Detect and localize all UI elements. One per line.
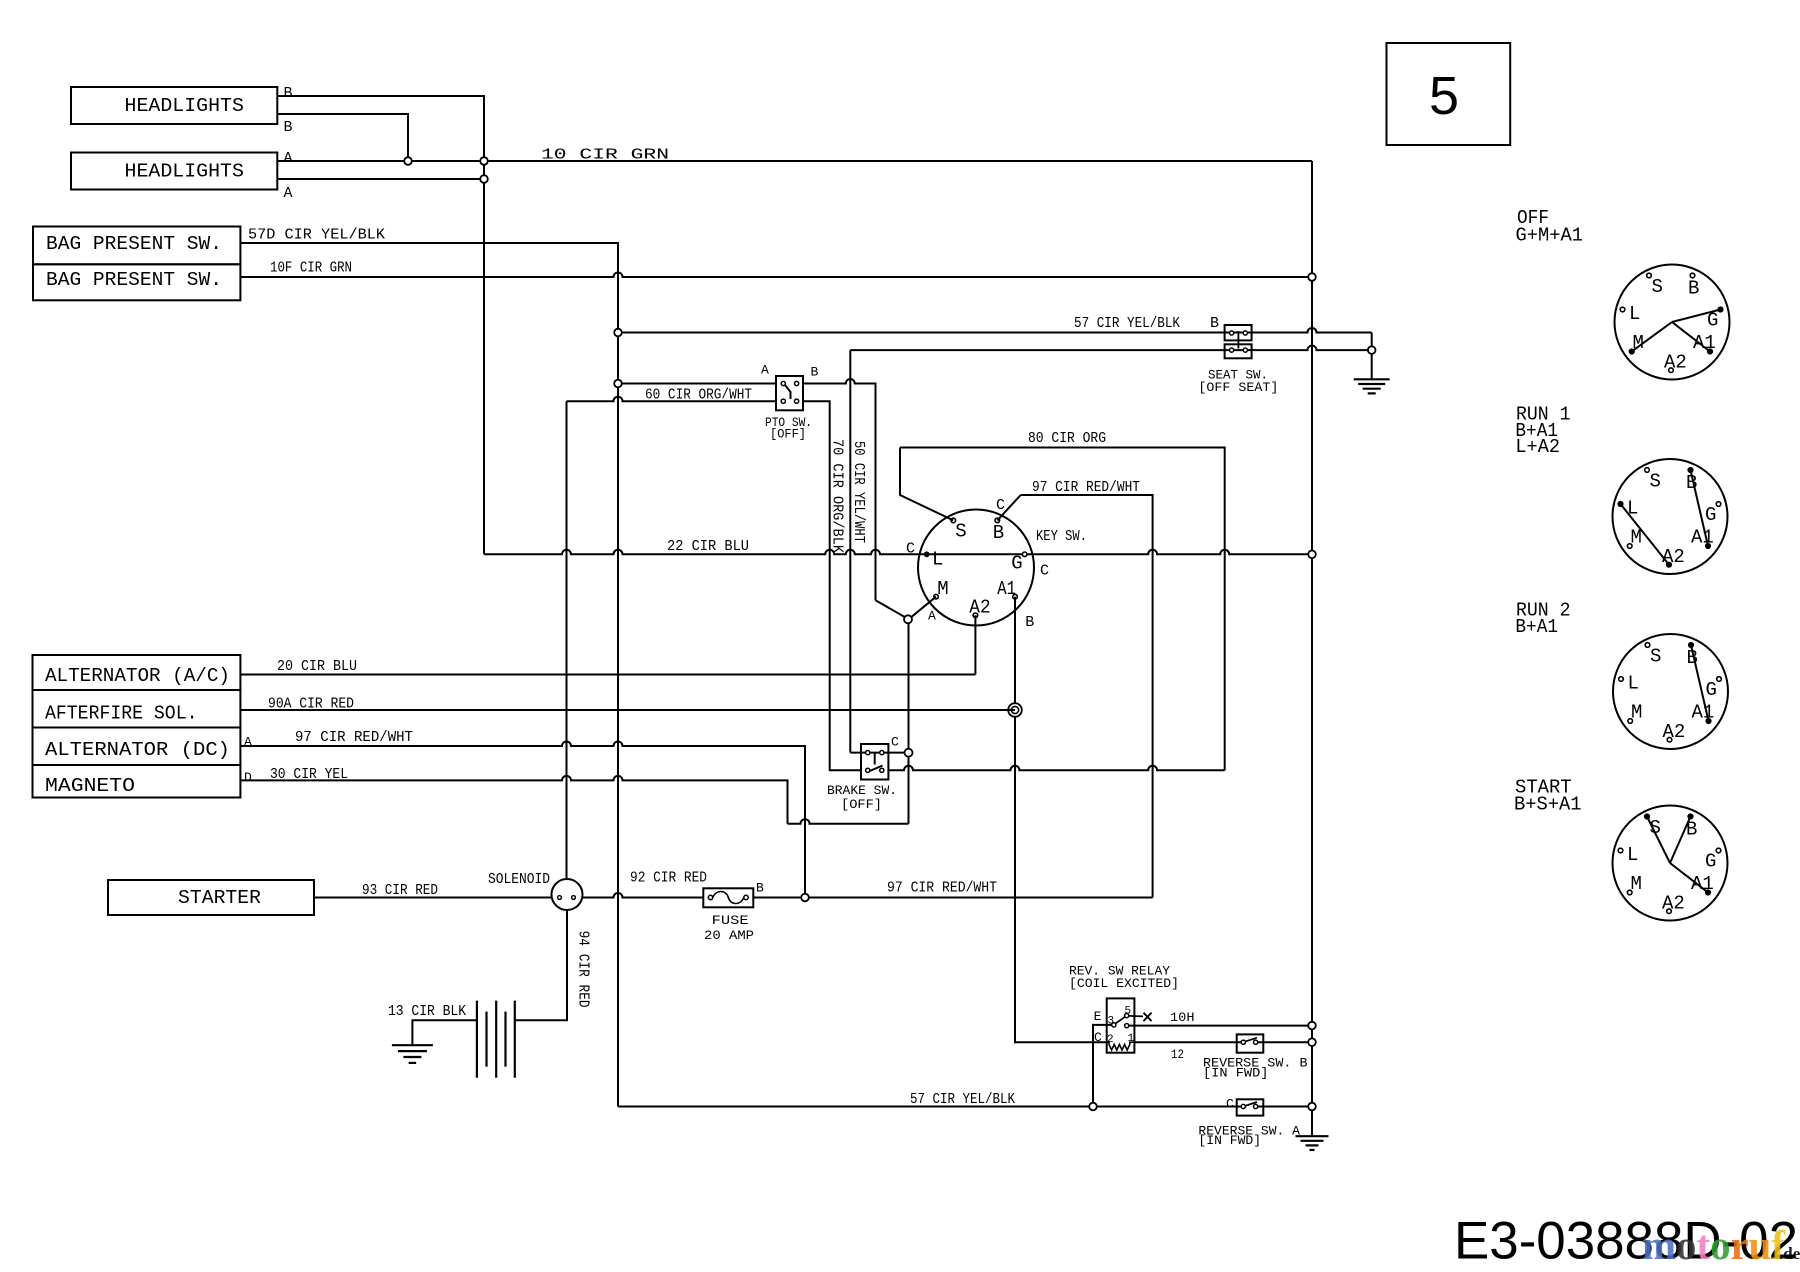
- svg-text:[IN FWD]: [IN FWD]: [1198, 1134, 1261, 1148]
- svg-text:12: 12: [1171, 1047, 1184, 1062]
- svg-text:93 CIR RED: 93 CIR RED: [362, 882, 438, 899]
- label 57 CIR YEL/BLK (bottom): [910, 1091, 1015, 1108]
- node junction (484,179): [480, 175, 488, 183]
- wire solenoid bottom 94 CIR RED: [515, 910, 567, 1020]
- wire REVERSE SW. B to right vertical: [1258, 1041, 1312, 1043]
- label PTO SW.: [765, 415, 812, 430]
- pin label B (seat sw): [1210, 315, 1219, 332]
- label A (M connector): [928, 609, 936, 624]
- svg-text:A2: A2: [1664, 352, 1687, 374]
- label [OFF] (brake): [841, 797, 882, 812]
- svg-text:B: B: [284, 85, 293, 102]
- svg-text:A: A: [244, 735, 252, 750]
- switch REVERSE SW. B box: [1237, 1034, 1264, 1052]
- svg-text:92 CIR RED: 92 CIR RED: [630, 870, 707, 887]
- wire 30 CIR YEL (magneto to brake bus): [240, 776, 908, 824]
- wire M pin diagonal to connector: [911, 597, 936, 618]
- pin label B (fuse): [756, 881, 764, 896]
- wire A2 drop and 20 CIR BLU run: [240, 615, 975, 674]
- wire PTO B to M-connector vertical: [803, 379, 876, 600]
- relay REV. SW RELAY box: [1107, 998, 1135, 1052]
- svg-text:L+A2: L+A2: [1515, 436, 1560, 458]
- KEY SW label L: [932, 549, 943, 571]
- label [IN FWD] (A): [1198, 1134, 1261, 1148]
- label B+S+A1: [1514, 794, 1582, 816]
- pin label A (PTO): [761, 363, 769, 378]
- svg-text:KEY SW.: KEY SW.: [1036, 528, 1087, 545]
- wire PTO-B diagonal to connector: [876, 600, 905, 617]
- svg-text:SOLENOID: SOLENOID: [488, 871, 550, 888]
- node junction (484,161): [480, 157, 488, 165]
- wire vertical x484 down to 22 CIR BLU: [483, 165, 485, 554]
- svg-text:1: 1: [1128, 1033, 1135, 1045]
- svg-text:94 CIR RED: 94 CIR RED: [575, 931, 592, 1008]
- label START: [1515, 777, 1572, 799]
- wire headlights-lower A2: [277, 178, 484, 180]
- relay pin label 5: [1125, 1005, 1132, 1017]
- pin label B (PTO): [811, 365, 819, 380]
- label 57 CIR YEL/BLK (top): [1074, 315, 1180, 332]
- label 90A CIR RED: [268, 696, 354, 713]
- label 22 CIR BLU: [667, 538, 749, 555]
- wire headlights-upper B to node x484: [277, 96, 484, 157]
- svg-text:FUSE: FUSE: [712, 913, 749, 928]
- box BAG PRESENT SW. (upper): [33, 227, 240, 265]
- wire relay pin1 to REVERSE SW. B: [1134, 1041, 1241, 1043]
- KEY SW label B: [993, 522, 1004, 544]
- wire battery to ground: [412, 1020, 477, 1045]
- wire REVERSE SW. A to right vertical: [1258, 1106, 1312, 1108]
- pin label D (magneto): [244, 770, 252, 785]
- pin label A (headlights lower, pin 1): [284, 150, 293, 167]
- label C (above B): [996, 497, 1005, 514]
- svg-text:10 CIR GRN: 10 CIR GRN: [541, 147, 669, 164]
- svg-text:G: G: [1706, 679, 1717, 701]
- label 12: [1171, 1047, 1184, 1062]
- label 97 CIR RED/WHT (key): [1032, 479, 1140, 496]
- box sheet number 5: [1387, 43, 1511, 145]
- svg-text:G: G: [1705, 851, 1716, 873]
- wire 50 CIR YEL/WHT label vertical: [850, 441, 867, 543]
- wire PTO bottom-right to 70 CIR ORG/BLK down to brake: [803, 401, 861, 770]
- KEY SW label A1: [997, 578, 1016, 600]
- KEY SW pin M: [934, 594, 939, 599]
- svg-text:BAG PRESENT SW.: BAG PRESENT SW.: [46, 269, 222, 291]
- node junction (1093,1106.5): [1089, 1103, 1097, 1111]
- node junction (1312,1106.5): [1308, 1103, 1316, 1111]
- SEAT SW terminals: [1230, 331, 1248, 352]
- relay pin label C: [1094, 1030, 1102, 1045]
- op key position circle START: [1613, 806, 1728, 921]
- label OFF: [1517, 207, 1549, 229]
- svg-text:[OFF SEAT]: [OFF SEAT]: [1198, 380, 1278, 395]
- REVERSE SW B blade: [1245, 1038, 1257, 1042]
- svg-text:C: C: [906, 541, 915, 558]
- wire seat lower right to ground node: [1252, 346, 1368, 351]
- battery 13 CIR BLK: [477, 1001, 515, 1078]
- node junction (1312,1042.2): [1308, 1038, 1316, 1046]
- svg-text:B: B: [284, 119, 293, 136]
- wire headlights-upper B2 to node x408: [277, 114, 408, 157]
- box ALTERNATOR (DC): [33, 728, 241, 766]
- svg-text:D: D: [244, 770, 252, 785]
- relay pin label 2: [1107, 1034, 1114, 1046]
- svg-text:M: M: [1631, 873, 1642, 895]
- svg-text:S: S: [955, 521, 966, 543]
- svg-text:S: S: [1652, 276, 1663, 298]
- svg-text:E: E: [1094, 1009, 1102, 1024]
- label 13 CIR BLK: [388, 1003, 466, 1020]
- svg-text:L: L: [1627, 498, 1638, 520]
- label 93 CIR RED: [362, 882, 438, 899]
- node connector circle (brake-right): [905, 749, 913, 757]
- box BAG PRESENT SW. (lower): [33, 264, 240, 300]
- svg-text:M: M: [937, 578, 948, 600]
- watermark motoruf.de: [1642, 1222, 1800, 1268]
- svg-text:10H: 10H: [1170, 1010, 1195, 1025]
- wire relay E to bottom 57 bus: [1093, 1025, 1112, 1103]
- label SEAT SW.: [1208, 368, 1268, 383]
- wire 57 CIR YEL/BLK bottom run: [618, 1106, 1241, 1108]
- svg-text:[IN FWD]: [IN FWD]: [1203, 1067, 1269, 1081]
- wire brake top wire: [850, 752, 904, 754]
- svg-text:[OFF]: [OFF]: [841, 797, 882, 812]
- svg-text:A1: A1: [997, 578, 1016, 600]
- svg-text:ALTERNATOR (DC): ALTERNATOR (DC): [45, 739, 230, 761]
- svg-text:B: B: [811, 365, 819, 380]
- svg-text:A2: A2: [1662, 893, 1685, 915]
- svg-text:BAG PRESENT SW.: BAG PRESENT SW.: [46, 233, 222, 255]
- wire 93 CIR RED: [314, 897, 552, 899]
- svg-text:C: C: [1226, 1097, 1234, 1112]
- svg-text:97 CIR RED/WHT: 97 CIR RED/WHT: [887, 880, 997, 897]
- svg-text:A: A: [761, 363, 769, 378]
- label 92 CIR RED: [630, 870, 707, 887]
- svg-text:C: C: [996, 497, 1005, 514]
- label [IN FWD] (B): [1203, 1067, 1269, 1081]
- svg-text:B+S+A1: B+S+A1: [1514, 794, 1582, 816]
- svg-text:A: A: [928, 609, 936, 624]
- wire relay 10H to right vertical: [1129, 1025, 1312, 1027]
- wire 97 CIR RED/WHT (alt DC to fuse node): [240, 742, 805, 895]
- KEY SW label A2: [969, 597, 990, 619]
- box ALTERNATOR (A/C): [33, 655, 241, 690]
- wire 10F CIR GRN: [240, 273, 1312, 278]
- svg-text:20 AMP: 20 AMP: [704, 928, 754, 943]
- relay blade (3-5): [1116, 1017, 1126, 1024]
- KEY SW label G: [1011, 553, 1022, 575]
- wire seat sw to ground corner: [1252, 328, 1372, 332]
- svg-text:S: S: [1650, 646, 1661, 668]
- label C (reverse A): [1226, 1097, 1234, 1112]
- label RUN 2: [1516, 600, 1571, 622]
- wire seat ground drop: [1371, 333, 1373, 380]
- KEY SW pin G: [1022, 552, 1027, 557]
- svg-text:S: S: [1650, 471, 1661, 493]
- wire fuse to 97 node: [753, 897, 801, 899]
- label C (below G): [1040, 563, 1049, 580]
- PTO blade: [785, 385, 791, 399]
- svg-text:BRAKE SW.: BRAKE SW.: [827, 783, 897, 798]
- wire 92 CIR RED (solenoid to fuse): [583, 893, 704, 898]
- svg-text:B: B: [993, 522, 1004, 544]
- svg-text:MAGNETO: MAGNETO: [45, 775, 135, 797]
- label SOLENOID: [488, 871, 550, 888]
- svg-text:97 CIR RED/WHT: 97 CIR RED/WHT: [1032, 479, 1140, 496]
- label 97 CIR RED/WHT (alternator DC): [295, 729, 413, 746]
- wire seat lower to key-S vertical (50 CIR YEL/WHT): [850, 350, 1251, 752]
- wire 60 CIR ORG/WHT to PTO: [622, 383, 776, 385]
- svg-text:L: L: [1628, 673, 1639, 695]
- svg-text:A2: A2: [969, 597, 990, 619]
- REVERSE SW A blade: [1245, 1102, 1257, 1106]
- switch BRAKE SW. box: [861, 744, 888, 780]
- svg-text:A: A: [284, 185, 293, 202]
- KEY SW pin S: [951, 518, 956, 523]
- label 30 CIR YEL: [270, 766, 348, 783]
- wire 70 CIR ORG/BLK label vertical: [828, 439, 845, 553]
- ground (battery): [392, 1045, 433, 1063]
- PTO terminals: [781, 381, 799, 403]
- svg-text:[COIL EXCITED]: [COIL EXCITED]: [1069, 977, 1179, 991]
- label 10H: [1170, 1010, 1195, 1025]
- box MAGNETO: [33, 765, 241, 798]
- pin label B (A1 wire): [1025, 614, 1034, 631]
- label [OFF SEAT]: [1198, 380, 1278, 395]
- svg-text:S: S: [1650, 817, 1661, 839]
- BRAKE SW blade: [869, 753, 883, 772]
- relay pin label 1: [1128, 1033, 1135, 1045]
- svg-text:G+M+A1: G+M+A1: [1516, 225, 1584, 247]
- box STARTER: [108, 880, 314, 915]
- node junction (408,161): [404, 157, 412, 165]
- label C (brake): [891, 735, 899, 750]
- svg-text:B: B: [756, 881, 764, 896]
- svg-text:HEADLIGHTS: HEADLIGHTS: [125, 95, 244, 117]
- node junction (618,383.5): [614, 380, 622, 388]
- label E3-03888D-02: [1454, 1212, 1798, 1271]
- op key switch circle KEY SW.: [918, 510, 1034, 626]
- svg-text:57D CIR YEL/BLK: 57D CIR YEL/BLK: [248, 227, 385, 244]
- label 10 CIR GRN: [541, 147, 669, 164]
- KEY SW label M: [937, 578, 948, 600]
- wire PTO bottom-left to solenoid top: [567, 397, 777, 880]
- op key position circle RUN 2: [1613, 634, 1728, 749]
- relay pin5 stub to X: [1129, 1015, 1143, 1018]
- svg-text:22 CIR BLU: 22 CIR BLU: [667, 538, 749, 555]
- svg-text:5: 5: [1429, 66, 1459, 126]
- svg-text:2: 2: [1107, 1034, 1114, 1046]
- svg-text:10F CIR GRN: 10F CIR GRN: [270, 260, 352, 277]
- label REV. SW RELAY: [1069, 965, 1171, 979]
- svg-text:B: B: [1688, 278, 1699, 300]
- label 97 CIR RED/WHT (fuse): [887, 880, 997, 897]
- node junction (618,332.5): [614, 329, 622, 337]
- label 57D CIR YEL/BLK: [248, 227, 385, 244]
- svg-text:L: L: [932, 549, 943, 571]
- svg-text:A2: A2: [1663, 721, 1686, 743]
- REVERSE SW A terminals: [1241, 1104, 1257, 1108]
- svg-text:ALTERNATOR (A/C): ALTERNATOR (A/C): [45, 665, 230, 687]
- node ring connector (A1/90A): [1008, 703, 1022, 717]
- wire A1 drop to relay coil: [1015, 597, 1107, 1042]
- KEY SW pin A1: [1013, 594, 1018, 599]
- pin label A (headlights lower, pin 2): [284, 185, 293, 202]
- ground (seat switch): [1354, 379, 1390, 393]
- svg-text:57 CIR YEL/BLK: 57 CIR YEL/BLK: [1074, 315, 1180, 332]
- wire vertical x618 (57D bus down to bottom 57 CIR YEL/BLK): [617, 336, 619, 1106]
- svg-text:B: B: [1025, 614, 1034, 631]
- svg-text:C: C: [891, 735, 899, 750]
- KEY SW label S: [955, 521, 966, 543]
- wire 80 CIR ORG (S to brake via right vertical): [900, 448, 1225, 771]
- box HEADLIGHTS (upper): [71, 87, 277, 124]
- svg-text:.de: .de: [1779, 1244, 1800, 1263]
- label RUN 1: [1516, 404, 1571, 426]
- label B+A1 (run1): [1515, 420, 1558, 442]
- label 80 CIR ORG: [1028, 430, 1106, 447]
- wire 57 CIR YEL/BLK to seat switch: [622, 332, 1252, 334]
- svg-text:motoruf: motoruf: [1642, 1222, 1786, 1268]
- wire main right vertical x1312: [1311, 161, 1313, 1136]
- relay pin label E: [1094, 1009, 1102, 1024]
- svg-text:20 CIR BLU: 20 CIR BLU: [277, 658, 357, 675]
- label BRAKE SW.: [827, 783, 897, 798]
- label 94 CIR RED (rotated): [575, 931, 592, 1008]
- wire magneto bus vertical (connector to brake row): [908, 623, 910, 823]
- REVERSE SW B terminals: [1241, 1040, 1257, 1044]
- wire 97 CIR RED/WHT (fuse line east): [809, 897, 1153, 899]
- wire 22 CIR BLU (L-G bus): [484, 550, 1312, 555]
- KEY SW pin A2: [973, 613, 978, 618]
- pin label B (headlights upper, pin 2): [284, 119, 293, 136]
- svg-text:70 CIR ORG/BLK: 70 CIR ORG/BLK: [828, 439, 845, 553]
- relay coil: [1107, 1042, 1135, 1050]
- switch SEAT SW. box lower: [1225, 344, 1252, 358]
- switch SEAT SW. box upper: [1225, 325, 1252, 340]
- svg-text:A: A: [284, 150, 293, 167]
- wire 97 CIR RED/WHT (B to fuse via right): [997, 495, 1152, 898]
- node junction (1371.7,350.1): [1368, 346, 1376, 354]
- svg-text:L: L: [1629, 303, 1640, 325]
- pin label A (alternator DC): [244, 735, 252, 750]
- label 20 AMP: [704, 928, 754, 943]
- op solenoid circle: [552, 879, 583, 910]
- relay pin contacts: [1112, 1014, 1129, 1028]
- wire 90A CIR RED (afterfire to ring): [240, 709, 1015, 711]
- pin label B (headlights upper, pin 1): [284, 85, 293, 102]
- wire 10 CIR GRN (headlights A to right vertical): [277, 160, 1312, 162]
- switch REVERSE SW. A box: [1237, 1099, 1264, 1115]
- svg-text:80 CIR ORG: 80 CIR ORG: [1028, 430, 1106, 447]
- switch PTO SW. box: [776, 376, 803, 410]
- BRAKE SW terminals: [866, 751, 884, 773]
- label REVERSE SW. A: [1198, 1125, 1300, 1139]
- svg-text:[OFF]: [OFF]: [770, 427, 806, 442]
- node junction (1312,277): [1308, 273, 1316, 281]
- node connector circle below M: [904, 615, 912, 623]
- svg-text:50 CIR YEL/WHT: 50 CIR YEL/WHT: [850, 441, 867, 543]
- svg-text:HEADLIGHTS: HEADLIGHTS: [125, 161, 244, 183]
- svg-text:B: B: [1210, 315, 1219, 332]
- label 20 CIR BLU: [277, 658, 357, 675]
- node junction (1312,1025.6): [1308, 1022, 1316, 1030]
- svg-text:57 CIR YEL/BLK: 57 CIR YEL/BLK: [910, 1091, 1015, 1108]
- relay X mark: [1144, 1013, 1152, 1021]
- box HEADLIGHTS (lower): [71, 153, 277, 190]
- label FUSE: [712, 913, 749, 928]
- wire 80 CIR ORG lower run to brake sw: [888, 766, 1224, 771]
- svg-text:G: G: [1705, 504, 1716, 526]
- svg-text:A2: A2: [1662, 546, 1685, 568]
- label C (left of L): [906, 541, 915, 558]
- SEAT SW link: [1237, 331, 1239, 349]
- svg-text:5: 5: [1125, 1005, 1132, 1017]
- ground (main right vertical): [1296, 1136, 1329, 1150]
- KEY SW pin B: [995, 518, 1000, 523]
- svg-text:C: C: [1040, 563, 1049, 580]
- svg-text:13 CIR BLK: 13 CIR BLK: [388, 1003, 466, 1020]
- svg-text:L: L: [1627, 844, 1638, 866]
- relay pin label 3: [1108, 1015, 1115, 1027]
- label G+M+A1: [1516, 225, 1584, 247]
- svg-text:97 CIR RED/WHT: 97 CIR RED/WHT: [295, 729, 413, 746]
- svg-text:C: C: [1094, 1030, 1102, 1045]
- KEY SW pin L (solid): [924, 551, 930, 557]
- label 10F CIR GRN: [270, 260, 352, 277]
- svg-text:G: G: [1011, 553, 1022, 575]
- label B+A1 (run2): [1515, 616, 1558, 638]
- op key position circle RUN 1: [1613, 459, 1728, 574]
- svg-text:AFTERFIRE SOL.: AFTERFIRE SOL.: [45, 703, 198, 725]
- label [COIL EXCITED]: [1069, 977, 1179, 991]
- label L+A2 (run1): [1515, 436, 1560, 458]
- box AFTERFIRE SOL.: [33, 690, 241, 728]
- node junction (805, 897.5): [801, 894, 809, 902]
- fuse FUSE 20 AMP box: [703, 888, 753, 907]
- label KEY SW.: [1036, 528, 1087, 545]
- svg-text:B+A1: B+A1: [1515, 616, 1558, 638]
- label REVERSE SW. B: [1203, 1057, 1308, 1071]
- fuse element: [708, 892, 748, 904]
- node junction (1312,554.3): [1308, 551, 1316, 559]
- svg-text:M: M: [1631, 702, 1642, 724]
- label 60 CIR ORG/WHT: [645, 386, 752, 403]
- wire 57D CIR YEL/BLK: [240, 243, 618, 328]
- op key position circle OFF: [1615, 265, 1730, 380]
- svg-text:STARTER: STARTER: [178, 887, 261, 909]
- label [OFF] (PTO): [770, 427, 806, 442]
